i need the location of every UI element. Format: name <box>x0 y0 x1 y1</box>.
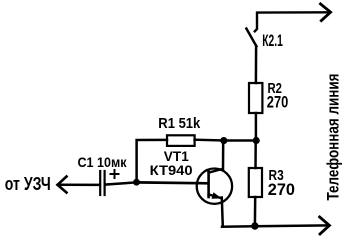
wire: R2 bottom to column junction <box>255 113 258 141</box>
wire: emitter lead down to bottom rail <box>222 198 223 227</box>
wire: top rail corner to arrow (switch upper terminal) <box>255 12 330 31</box>
polarity "+" of C1 <box>111 170 119 178</box>
svg-text:С1 10мк: С1 10мк <box>78 155 127 170</box>
wire: input arrow to C1 <box>58 184 99 187</box>
top output arrow <box>321 4 331 21</box>
resistor R2 <box>249 83 262 113</box>
input arrow (to УЗЧ, pointing left) <box>58 177 67 193</box>
transistor VT1 <box>197 169 232 204</box>
node: base junction <box>133 179 140 186</box>
resistor R1 <box>167 135 195 146</box>
svg-text:Телефонная линия: Телефонная линия <box>324 74 343 201</box>
wire: switch lower terminal to R2 <box>255 47 258 83</box>
wire: bottom rail to output arrow <box>222 225 329 226</box>
node: collector junction <box>220 137 227 144</box>
resistor R3 <box>249 168 262 197</box>
wire: column junction to R3 <box>254 141 257 169</box>
wire: collector lead <box>222 141 225 170</box>
svg-text:К2.1: К2.1 <box>262 32 283 50</box>
bottom output arrow <box>320 217 330 234</box>
wire: base node up and right to R1 <box>137 140 167 182</box>
node: column junction (R2/R3) <box>253 137 260 144</box>
svg-text:КТ940: КТ940 <box>150 163 193 178</box>
wire: R3 bottom to bottom rail <box>254 197 257 226</box>
capacitor C1 <box>100 171 104 195</box>
svg-text:R1 51k: R1 51k <box>158 115 201 132</box>
node: emitter / R3 bottom junction <box>251 222 258 229</box>
svg-text:VT1: VT1 <box>164 149 189 164</box>
svg-text:270: 270 <box>268 181 295 199</box>
wire: R1 to collector node <box>195 138 224 141</box>
svg-text:270: 270 <box>267 94 289 112</box>
wire: base node to VT1 base <box>137 181 209 185</box>
switch K2.1 blade <box>246 29 256 47</box>
wire: collector node to column junction <box>224 139 256 142</box>
svg-text:от УЗЧ: от УЗЧ <box>5 174 51 194</box>
wire: C1 to base node <box>106 182 137 184</box>
